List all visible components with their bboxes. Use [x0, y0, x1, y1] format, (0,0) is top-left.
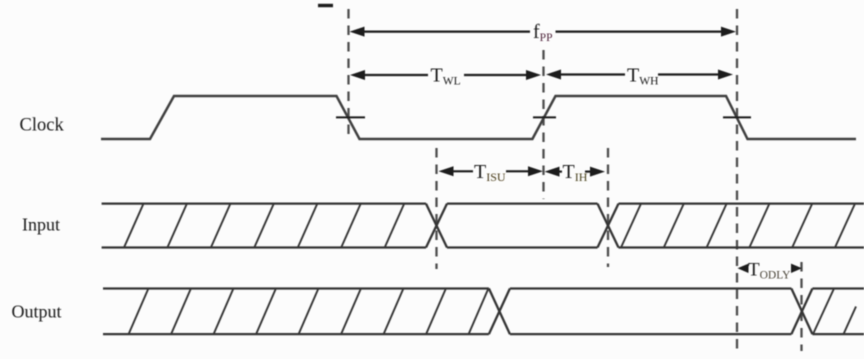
node dashed line A (clock falling edge 1, x=348.5) — [347, 9, 349, 141]
node dashed line D (input valid end, x=608) — [607, 148, 609, 267]
node arrow TODLY — [738, 264, 803, 273]
svg-text:TIH: TIH — [563, 161, 588, 184]
wire output bus band — [103, 289, 864, 335]
node clock edge tick 2 — [533, 116, 556, 118]
node clock edge tick 1 — [336, 116, 365, 118]
node input hatching left — [124, 204, 404, 248]
node arrow TIH — [545, 167, 606, 177]
node input hatching right — [621, 204, 855, 248]
node arrow TWH — [546, 70, 733, 80]
svg-text:TISU: TISU — [474, 161, 506, 184]
node clock edge tick 3 — [723, 116, 751, 118]
svg-text:Input: Input — [22, 215, 60, 235]
node output hatching left — [129, 289, 489, 335]
node arrow fPP — [350, 27, 737, 37]
node output hatching right — [813, 289, 856, 335]
svg-text:TWL: TWL — [431, 65, 461, 88]
node dashed line C (clock rising edge 2, x=543.5) — [542, 50, 544, 199]
svg-text:Clock: Clock — [20, 115, 65, 135]
wire input bus band — [102, 204, 864, 248]
node dashed line E (clock falling edge 3, x=737) — [736, 9, 738, 351]
node arrow TISU — [439, 166, 544, 176]
node top-crop dash — [318, 4, 333, 7]
node dashed line F (output transition, x=801.5) — [800, 262, 802, 351]
svg-text:TWH: TWH — [627, 65, 658, 88]
svg-text:Output: Output — [12, 302, 62, 322]
wire clock waveform — [101, 96, 856, 139]
node arrow TWL — [350, 70, 541, 80]
svg-text:fPP: fPP — [533, 21, 552, 44]
svg-text:TODLY: TODLY — [748, 260, 791, 282]
node dashed line B (input valid start, x=436.5) — [435, 148, 437, 269]
